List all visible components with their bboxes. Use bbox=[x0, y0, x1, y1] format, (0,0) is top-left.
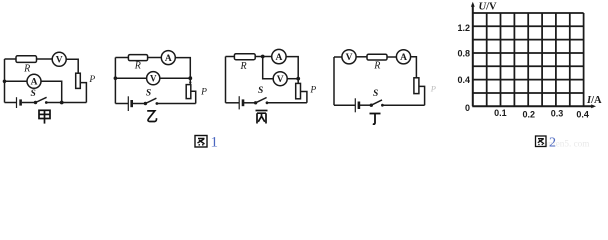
wire: ding R to ammeter bbox=[387, 56, 396, 58]
wire: bing voltmeter branch bbox=[263, 57, 274, 79]
switch contact dot (yi) bbox=[156, 102, 159, 105]
svg-text:0.8: 0.8 bbox=[457, 48, 470, 58]
svg-text:P: P bbox=[430, 84, 436, 94]
svg-text:S: S bbox=[31, 89, 36, 99]
battery long plate (bing) bbox=[238, 96, 240, 109]
svg-text:1: 1 bbox=[211, 135, 219, 149]
switch pivot dot (bing) bbox=[254, 101, 257, 104]
svg-text:S: S bbox=[146, 89, 151, 99]
resistor R (yi) bbox=[128, 55, 147, 61]
wire: yi R to ammeter bbox=[148, 57, 162, 59]
resistor R (ding) bbox=[367, 54, 387, 60]
wire: bing rheostat tap to bottom bbox=[301, 92, 307, 103]
ammeter A (bing) bbox=[272, 49, 286, 63]
svg-text:0.3: 0.3 bbox=[551, 109, 564, 119]
label ding (丁) drawn strokes bbox=[370, 114, 381, 125]
svg-text:0.4: 0.4 bbox=[576, 110, 589, 120]
tu glyph (tu2) bbox=[536, 136, 547, 147]
switch pivot dot (jia) bbox=[34, 101, 37, 104]
voltmeter V (ding) bbox=[342, 50, 356, 64]
wire: yi voltmeter row left bbox=[115, 77, 146, 79]
wire: jia bottom right segment bbox=[46, 102, 86, 104]
wire: ding A to right corner down bbox=[411, 57, 417, 78]
svg-text:0.2: 0.2 bbox=[523, 110, 536, 120]
wire: jia ammeter branch left bbox=[5, 80, 28, 82]
svg-text:P: P bbox=[200, 88, 207, 98]
svg-text:A: A bbox=[400, 53, 407, 63]
wire: jia ammeter branch right down bbox=[41, 81, 62, 102]
junction dot bing right bbox=[296, 77, 300, 81]
svg-text:2: 2 bbox=[549, 135, 556, 148]
wire: yi bottom right segment bbox=[157, 103, 196, 105]
wire: ding top-left to voltmeter bbox=[334, 56, 342, 58]
wire: jia R to voltmeter bbox=[37, 58, 53, 60]
x axis (tu2) bbox=[472, 105, 593, 107]
wire: jia top-left to R bbox=[5, 58, 17, 60]
wire: jia rheostat tap to bottom-right bbox=[80, 83, 86, 103]
svg-text:V: V bbox=[150, 74, 157, 84]
wire: bing battery to bottom-left bbox=[226, 102, 240, 104]
wire: bing left vertical bbox=[225, 57, 227, 103]
battery long plate (ding) bbox=[354, 98, 356, 112]
grid (tu2) bbox=[473, 13, 584, 106]
wire: ding bottom right segment bbox=[382, 104, 424, 106]
svg-text:V: V bbox=[56, 56, 63, 66]
ammeter A (yi) bbox=[161, 51, 175, 65]
svg-text:V: V bbox=[346, 53, 353, 63]
svg-text:U/V: U/V bbox=[479, 1, 498, 12]
svg-text:I/A: I/A bbox=[586, 95, 602, 106]
svg-text:A: A bbox=[165, 54, 172, 64]
y axis (tu2) bbox=[472, 5, 474, 107]
svg-text:R: R bbox=[373, 60, 380, 71]
svg-text:0: 0 bbox=[465, 103, 470, 113]
wire: yi top-left to R bbox=[115, 57, 128, 59]
svg-text:S: S bbox=[373, 89, 378, 99]
junction dot yi right bbox=[188, 76, 192, 80]
switch contact dot (ding) bbox=[381, 104, 384, 107]
resistor R (jia) bbox=[16, 56, 37, 63]
svg-text:P: P bbox=[88, 75, 95, 85]
wire: bing pivot to battery bbox=[243, 102, 255, 104]
wire: bing A to right corner down bbox=[286, 57, 298, 84]
switch S blade (jia) bbox=[36, 97, 47, 102]
battery long plate (yi) bbox=[127, 96, 129, 111]
wire: yi battery to bottom-left bbox=[115, 103, 128, 105]
wire: jia V to top-right corner and down bbox=[66, 59, 78, 73]
svg-text:0.4: 0.4 bbox=[457, 75, 470, 85]
svg-text:S: S bbox=[258, 86, 263, 96]
x axis arrow bbox=[591, 104, 596, 108]
junction dot bing top bbox=[261, 55, 265, 59]
svg-text:V: V bbox=[277, 75, 284, 85]
voltmeter V (yi) bbox=[147, 72, 160, 85]
wire: ding battery to bottom-left bbox=[334, 104, 355, 106]
battery short plate (bing) bbox=[242, 99, 245, 106]
wire: bing V to right junction bbox=[287, 78, 298, 80]
wire: bing top-left to R bbox=[226, 56, 235, 58]
battery long plate (jia) bbox=[16, 97, 18, 108]
junction dot jia bottom bbox=[60, 101, 64, 105]
wire: ding pivot to battery bbox=[359, 104, 371, 106]
svg-text:R: R bbox=[23, 64, 30, 75]
junction dot jia left bbox=[3, 80, 7, 84]
battery short plate (jia) bbox=[19, 99, 22, 105]
svg-text:0.1: 0.1 bbox=[494, 108, 507, 118]
battery short plate (ding) bbox=[358, 102, 361, 110]
rheostat wiper arrow (yi) bbox=[189, 82, 192, 85]
wire: ding V to R bbox=[356, 56, 367, 58]
switch pivot dot (yi) bbox=[144, 102, 147, 105]
tu glyph (tu1) bbox=[195, 136, 207, 148]
wire: ding rheostat tap to bottom bbox=[419, 86, 425, 105]
label yi (乙) drawn strokes bbox=[147, 111, 156, 122]
svg-text:A: A bbox=[31, 78, 38, 88]
svg-text:1.2: 1.2 bbox=[457, 23, 470, 33]
y axis arrow bbox=[471, 2, 475, 7]
rheostat (ding) bbox=[414, 78, 419, 94]
junction dot yi left bbox=[114, 76, 118, 80]
wire: jia battery to bottom-left bbox=[5, 102, 17, 104]
wire: yi rheostat tap to bottom bbox=[191, 91, 196, 103]
wire: yi voltmeter row right bbox=[160, 77, 191, 79]
wire: yi A to right corner and down bbox=[175, 58, 190, 85]
wire: jia pivot to battery bbox=[22, 102, 36, 104]
wire: bing bottom right segment bbox=[267, 102, 307, 104]
switch S blade (bing) bbox=[256, 98, 267, 103]
battery short plate (yi) bbox=[130, 100, 133, 107]
svg-text:P: P bbox=[309, 86, 316, 96]
label bing (丙) drawn strokes bbox=[256, 111, 268, 124]
svg-text:R: R bbox=[134, 61, 141, 72]
switch contact dot (jia) bbox=[45, 101, 48, 104]
wire: ding left vertical bbox=[333, 57, 335, 105]
voltmeter V (bing) bbox=[273, 72, 287, 86]
rheostat P (bing) bbox=[296, 83, 301, 98]
svg-text:A: A bbox=[275, 53, 282, 63]
wire: yi left vertical bbox=[114, 58, 116, 104]
resistor R (bing) bbox=[234, 54, 255, 60]
wire: bing R to junction and on to ammeter bbox=[255, 56, 272, 58]
wire: yi pivot to battery bbox=[132, 103, 145, 105]
ammeter A (ding) bbox=[396, 50, 410, 64]
rheostat P (jia) bbox=[76, 73, 81, 88]
wire: jia left vertical bbox=[4, 59, 6, 103]
switch S blade (ding) bbox=[371, 100, 382, 105]
label jia (甲) drawn strokes bbox=[39, 110, 50, 123]
rheostat P (yi) bbox=[186, 85, 191, 99]
switch contact dot (bing) bbox=[266, 101, 269, 104]
voltmeter V (jia) bbox=[52, 52, 66, 66]
ammeter A (jia) bbox=[27, 74, 41, 88]
svg-text:R: R bbox=[239, 61, 246, 72]
switch pivot dot (ding) bbox=[370, 104, 373, 107]
switch S blade (yi) bbox=[145, 98, 156, 103]
